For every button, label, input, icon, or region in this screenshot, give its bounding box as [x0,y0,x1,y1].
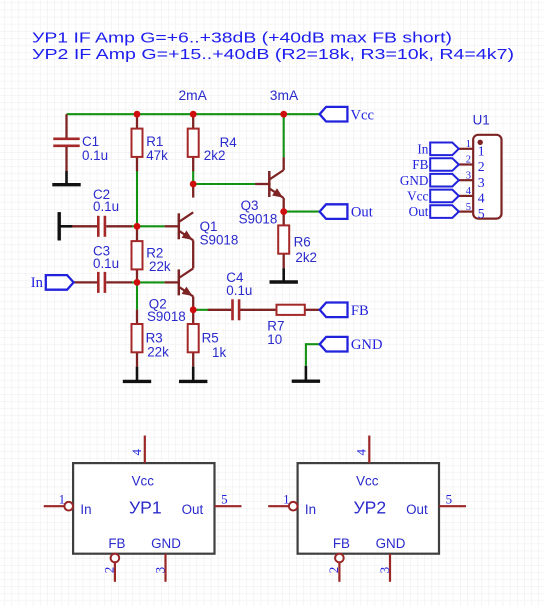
svg-text:5: 5 [446,492,453,507]
label C2 [93,187,119,214]
block УР1 body [73,463,214,554]
ground GND [292,366,320,381]
wire Q3 emitter node to Out port [284,211,320,213]
pin lead R4 bottom [192,157,194,171]
ground R6 [270,268,298,282]
svg-text:УР2 IF Amp G=+15..+40dB (R2=18: УР2 IF Amp G=+15..+40dB (R2=18k, R3=10k,… [32,47,514,63]
label port In [31,275,44,291]
label 2mA [179,88,208,103]
resistor R7 [277,305,305,315]
svg-text:УР1: УР1 [129,497,162,517]
resistor R6 [278,225,289,253]
label port Out [351,205,373,221]
pin lead R4 top [192,114,194,128]
svg-text:1k: 1k [212,345,226,360]
label R3 [146,331,169,360]
svg-text:Vcc: Vcc [132,474,155,489]
svg-text:In: In [305,502,316,517]
УР2 pin 3 (GND bottom) [389,554,391,582]
УР1 pin 4 number [129,449,144,456]
capacitor C4 [233,299,240,320]
label Q2 [147,297,186,325]
svg-text:R3: R3 [146,331,163,346]
УР1 text FB [108,536,125,551]
svg-text:Out: Out [406,502,428,517]
УР1 pin 2 number [102,567,117,574]
pin lead C2 left [72,225,98,227]
port Vcc [320,107,348,122]
УР2 pin 4 (top) [368,436,370,464]
svg-text:FB: FB [333,536,350,551]
label net GND [400,173,429,188]
УР2 pin 2 number [326,567,341,574]
ground C2 [59,212,72,240]
УР1 name [129,497,162,517]
transistor Q3 [269,170,283,198]
svg-text:Out: Out [409,204,429,219]
svg-text:FB: FB [351,303,369,319]
U1 pin 1 number [466,139,471,150]
svg-text:5: 5 [466,202,471,213]
port Out [320,204,348,219]
pin lead Q2 base [165,281,179,283]
svg-text:Vcc: Vcc [407,189,428,204]
label net In [417,141,428,156]
ground R3 [123,367,151,382]
svg-text:47k: 47k [146,148,168,163]
wire Q2 emitter node to C4 [193,309,208,311]
svg-text:2mA: 2mA [179,88,208,103]
УР2 pin 5 number [446,492,453,507]
pin lead Q3 emitter [283,198,285,212]
svg-text:0.1u: 0.1u [93,256,119,271]
label port Vcc [351,107,375,123]
svg-text:2k2: 2k2 [295,250,317,265]
label 3mA [270,88,299,103]
svg-text:3: 3 [478,175,485,190]
U1 pin 2 stub [459,163,473,165]
pin lead R2 top [136,226,138,241]
U1 pin 3 stub [459,179,473,181]
УР2 pin 2 (FB bottom) [335,554,344,582]
wire node2 to Q3 base [193,183,255,185]
U1 pin 4 number [466,186,472,197]
label R2 [146,245,171,274]
svg-text:GND: GND [376,536,406,551]
svg-text:2: 2 [326,567,341,574]
svg-text:3: 3 [466,170,471,181]
svg-text:R6: R6 [294,235,311,250]
svg-text:2k2: 2k2 [204,148,226,163]
svg-text:In: In [80,502,91,517]
svg-text:1: 1 [478,143,485,158]
УР2 pin 5 (right) [439,505,466,507]
pin lead C1 top [65,114,67,138]
svg-text:3: 3 [152,567,167,574]
label port GND [351,337,383,353]
U1 pin 1 name inside [478,143,485,158]
svg-text:U1: U1 [473,113,490,128]
label Q3 [239,198,278,227]
net port GND at U1 [430,174,459,187]
net port In at U1 [430,143,459,156]
junction node2 [190,181,197,188]
wire R4 bottom to node2 [192,171,194,184]
svg-text:22k: 22k [147,345,169,360]
pin lead C1 bottom [65,146,67,171]
svg-text:5: 5 [221,492,228,507]
УР1 pin 1 (left) [44,502,73,511]
УР1 text GND [151,536,181,551]
svg-text:R2: R2 [146,245,163,260]
label C1 [82,134,108,163]
capacitor C3 [98,272,105,293]
net port Out at U1 [430,205,459,218]
resistor R4 [188,129,199,157]
label port FB [351,303,369,319]
label net Vcc [407,189,428,204]
U1 pin 5 number [466,202,471,213]
ground R5 [179,367,207,382]
transistor Q1 [179,212,193,240]
pin lead Q1 collector [192,184,194,198]
svg-text:Out: Out [182,502,204,517]
pin lead R3 top [136,310,138,324]
svg-text:10: 10 [267,332,282,347]
svg-text:3: 3 [377,567,392,574]
УР2 pin 1 number [283,492,290,507]
U1 pin 3 number [466,170,471,181]
svg-text:3mA: 3mA [270,88,299,103]
title line 1 [32,31,452,47]
svg-text:Vcc: Vcc [351,107,375,123]
junction node4 [190,306,197,313]
svg-text:GND: GND [151,536,181,551]
svg-text:УР2: УР2 [353,497,386,517]
svg-text:0.1u: 0.1u [226,283,252,298]
svg-text:0.1u: 0.1u [82,148,108,163]
svg-text:Out: Out [351,205,373,221]
label U1 [473,113,490,128]
pin lead C4 left [208,309,232,311]
label R7 [267,319,284,348]
pin lead R7 to FB port [305,309,320,311]
label R4 [204,135,237,163]
pin lead R5 bottom [192,352,194,366]
pin lead R5 top [192,310,194,324]
pin lead C3 right [106,281,132,283]
УР1 pin 2 (FB bottom) [111,554,120,582]
pin lead In to C3 [74,281,97,283]
УР2 text Out [406,502,428,517]
net port Vcc at U1 [430,190,459,203]
resistor R1 [132,129,143,157]
label C4 [226,270,252,298]
svg-text:4: 4 [354,449,369,456]
УР1 text In [80,502,91,517]
title line 2 [32,47,514,63]
U1 pin 5 stub [459,211,473,213]
port GND [320,337,348,352]
pin lead R1 top [136,114,138,128]
U1 pin 2 name inside [478,159,485,174]
junction node3 [134,279,141,286]
УР2 pin 1 (left) [268,502,297,511]
label net FB [412,157,428,172]
УР2 text GND [376,536,406,551]
wire GND port to ground [306,343,320,366]
УР2 pin 4 number [354,449,369,456]
svg-text:2: 2 [102,567,117,574]
label net Out [409,204,429,219]
svg-text:4: 4 [466,186,472,197]
U1 pin1 mark [478,140,483,145]
svg-text:1: 1 [283,492,290,507]
pin lead C4 to R7 [239,309,277,311]
port In [46,275,74,290]
junction rail Q3 [280,111,287,118]
УР1 text Vcc [132,474,155,489]
transistor Q2 [179,268,193,296]
net port FB at U1 [430,158,459,171]
УР2 name [353,497,386,517]
УР1 text Out [182,502,204,517]
svg-text:1: 1 [59,492,66,507]
label R5 [202,331,227,360]
pin lead Q2 emitter to node4 [192,296,194,309]
svg-text:4: 4 [478,191,485,206]
svg-text:S9018: S9018 [147,309,186,324]
pin lead R1 bottom [136,157,138,171]
resistor R5 [188,324,199,352]
svg-text:1: 1 [466,139,471,150]
U1 pin 2 number [466,155,471,166]
svg-text:R5: R5 [202,331,219,346]
УР2 pin 3 number [377,567,392,574]
U1 pin 1 stub [459,148,473,150]
junction node5 [280,208,287,215]
junction node1 [134,223,141,230]
svg-text:S9018: S9018 [200,233,239,248]
label R1 [146,134,168,163]
U1 pin 5 name inside [478,206,485,221]
УР1 pin 3 number [152,567,167,574]
pin lead Q3 collector [283,157,285,170]
pin lead R6 bottom [283,254,285,269]
resistor R2 [132,241,143,269]
svg-text:2: 2 [466,155,471,166]
svg-text:2: 2 [478,159,485,174]
ground C1 [52,171,80,185]
svg-text:FB: FB [412,157,428,172]
svg-text:GND: GND [351,337,383,353]
svg-text:УР1 IF Amp G=+6..+38dB (+40dB: УР1 IF Amp G=+6..+38dB (+40dB max FB sho… [32,31,452,47]
svg-text:In: In [31,275,44,291]
svg-text:4: 4 [129,449,144,456]
pin lead C2 right [106,225,132,227]
pin lead R2 bottom [136,269,138,282]
label R6 [294,235,317,265]
wire node3 to Q2 base [131,281,165,283]
pin lead R3 bottom [136,352,138,366]
svg-text:In: In [417,141,428,156]
connector U1 body [473,135,501,219]
junction rail R4 [190,111,197,118]
УР1 pin 3 (GND bottom) [164,554,166,582]
УР1 pin 4 (top) [144,436,146,464]
pin lead Q3 base [255,183,269,185]
wire Vcc rail [67,113,320,115]
label Q1 [200,219,239,247]
junction rail R1 [134,111,141,118]
svg-text:0.1u: 0.1u [93,199,119,214]
svg-text:22k: 22k [149,259,171,274]
capacitor C1 [53,139,79,146]
block УР2 body [298,463,439,554]
wire node3 down to R3 [136,282,138,309]
УР1 pin 5 number [221,492,228,507]
resistor R3 [132,324,143,352]
УР2 text Vcc [356,474,379,489]
capacitor C2 [98,216,105,237]
U1 pin 4 name inside [478,191,485,206]
wire node1 to Q1 base [131,225,165,227]
wire Q1 emitter to Q2 collector [192,240,194,268]
УР1 pin 5 (right) [215,505,242,507]
svg-text:FB: FB [108,536,125,551]
svg-text:S9018: S9018 [239,212,278,227]
U1 pin 4 stub [459,195,473,197]
УР1 pin 1 number [59,492,66,507]
svg-text:5: 5 [478,206,485,221]
label C3 [93,244,119,271]
pin lead R6 top [283,212,285,226]
svg-text:GND: GND [400,173,429,188]
УР2 text FB [333,536,350,551]
port FB [320,303,348,318]
wire R1 bottom to node1 [136,171,138,226]
U1 pin 3 name inside [478,175,485,190]
УР2 text In [305,502,316,517]
pin lead Q1 base [165,225,179,227]
svg-text:Vcc: Vcc [356,474,379,489]
wire Q3 collector to rail [283,114,285,157]
